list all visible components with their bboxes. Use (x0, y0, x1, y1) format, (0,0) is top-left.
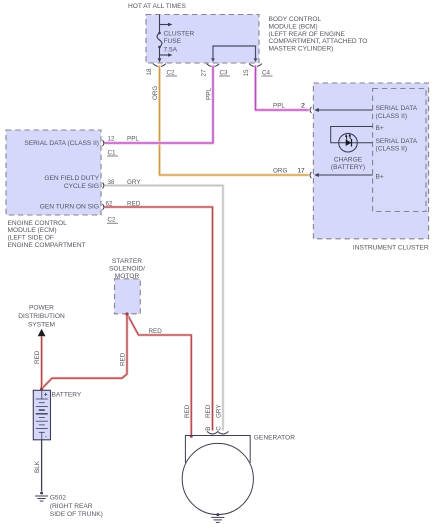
svg-text:12: 12 (108, 135, 116, 142)
svg-text:(CLASS II): (CLASS II) (376, 113, 408, 120)
svg-text:SIDE OF TRUNK): SIDE OF TRUNK) (50, 511, 103, 518)
svg-text:18: 18 (146, 68, 153, 76)
svg-text:(RIGHT REAR: (RIGHT REAR (50, 503, 93, 510)
svg-text:ENGINE CONTROL: ENGINE CONTROL (8, 220, 68, 227)
generator body (182, 443, 253, 514)
svg-text:-: - (45, 435, 47, 441)
svg-text:ORG: ORG (273, 167, 287, 174)
wire RED battery to power distribution (40, 337, 43, 391)
svg-text:SERIAL DATA: SERIAL DATA (376, 105, 418, 112)
wire B+ to pin 17 (315, 174, 373, 176)
svg-text:(LEFT REAR OF ENGINE: (LEFT REAR OF ENGINE (269, 31, 346, 38)
svg-text:(LEFT SIDE OF: (LEFT SIDE OF (8, 235, 54, 242)
connector at generator pin C (218, 431, 229, 434)
wire GRY ECM pin 38 to generator C (105, 186, 224, 431)
svg-text:27: 27 (201, 69, 208, 77)
wire charge lamp to serial data (339, 142, 373, 144)
svg-text:STARTER: STARTER (112, 258, 142, 265)
junction dot at starter (125, 312, 128, 315)
svg-text:G502: G502 (50, 495, 66, 502)
indicator CHARGE (BATTERY) (339, 133, 358, 152)
svg-text:GENERATOR: GENERATOR (254, 434, 295, 441)
svg-text:HOT AT ALL TIMES: HOT AT ALL TIMES (128, 3, 187, 10)
svg-text:CYCLE SIG: CYCLE SIG (64, 183, 99, 190)
svg-text:C2: C2 (108, 217, 117, 224)
connector at ECM pin 38 (103, 183, 104, 189)
svg-text:INSTRUMENT CLUSTER: INSTRUMENT CLUSTER (353, 245, 429, 252)
svg-text:CHARGE: CHARGE (334, 156, 363, 163)
svg-text:C3: C3 (220, 69, 229, 76)
svg-text:RED: RED (34, 350, 41, 364)
svg-text:PPL: PPL (127, 135, 139, 142)
connector at ECM pin 12 (103, 140, 104, 146)
connector at cluster pin 2 (310, 107, 311, 113)
svg-text:+: + (44, 392, 48, 399)
svg-text:RED: RED (205, 404, 212, 418)
connector C4 (BCM) (249, 64, 262, 67)
svg-text:B+: B+ (376, 173, 384, 180)
ground G502 (35, 492, 48, 502)
svg-text:SERIAL DATA (CLASS II): SERIAL DATA (CLASS II) (24, 140, 99, 147)
svg-text:C: C (216, 426, 223, 431)
svg-text:2: 2 (301, 103, 305, 110)
ECM box (6, 130, 101, 215)
BCM fuse box (146, 15, 259, 64)
junction dot at generator feed (190, 435, 193, 438)
wire B+ loop to charge lamp (331, 127, 373, 143)
svg-text:POWER: POWER (29, 304, 54, 311)
svg-text:B+: B+ (376, 125, 384, 132)
svg-text:ENGINE COMPARTMENT: ENGINE COMPARTMENT (8, 242, 86, 249)
arrow to power distribution (38, 329, 46, 336)
svg-text:MODULE (BCM): MODULE (BCM) (269, 23, 318, 30)
svg-text:RED: RED (120, 352, 127, 366)
svg-text:PPL: PPL (205, 88, 212, 100)
svg-text:SERIAL DATA: SERIAL DATA (376, 138, 418, 145)
wire serial data to pin 2 (315, 109, 373, 111)
svg-text:GEN TURN ON SIG: GEN TURN ON SIG (40, 204, 99, 211)
wire RED ECM pin 62 to generator B (105, 207, 213, 431)
svg-text:CLUSTER: CLUSTER (164, 31, 195, 38)
starter solenoid/motor box (115, 279, 141, 314)
svg-text:SYSTEM: SYSTEM (28, 321, 55, 328)
svg-text:7.5A: 7.5A (164, 46, 178, 53)
svg-text:GEN FIELD DUTY: GEN FIELD DUTY (44, 175, 99, 182)
svg-text:ORG: ORG (152, 86, 159, 100)
svg-text:FUSE: FUSE (164, 38, 182, 45)
battery cells (36, 391, 48, 440)
svg-text:17: 17 (298, 168, 306, 175)
svg-text:15: 15 (243, 69, 250, 77)
wire RED starter to generator (127, 314, 191, 436)
battery BAT1 (33, 390, 50, 440)
connector C3 (BCM) (207, 64, 220, 67)
connector C2 (BCM) (153, 64, 166, 67)
wire PPL C4 to cluster pin 2 (256, 66, 309, 111)
svg-text:MODULE (ECM): MODULE (ECM) (8, 227, 57, 234)
svg-text:COMPARTMENT, ATTACHED TO: COMPARTMENT, ATTACHED TO (269, 38, 368, 45)
fuse F1 CLUSTER FUSE 7.5A (157, 15, 168, 60)
svg-text:BLK: BLK (34, 460, 41, 473)
svg-text:C1: C1 (108, 149, 117, 156)
svg-text:C2: C2 (167, 69, 176, 76)
svg-text:B: B (205, 427, 212, 431)
svg-text:MASTER CYLINDER): MASTER CYLINDER) (269, 46, 334, 53)
svg-text:C4: C4 (262, 69, 271, 76)
wire ORG fuse to cluster pin 17 (160, 66, 309, 176)
connector at ECM pin 62 (103, 204, 104, 210)
svg-text:RED: RED (184, 404, 191, 418)
svg-text:RED: RED (149, 328, 163, 335)
svg-text:GRY: GRY (216, 404, 223, 418)
svg-text:SOLENOID/: SOLENOID/ (109, 266, 145, 273)
svg-text:BATTERY: BATTERY (52, 392, 82, 399)
wire RED starter to battery (42, 314, 127, 389)
ground at generator (211, 513, 224, 522)
junction dot at battery + (40, 387, 43, 390)
svg-text:(BATTERY): (BATTERY) (331, 164, 365, 171)
svg-text:(CLASS II): (CLASS II) (376, 146, 408, 153)
generator box (185, 436, 250, 463)
svg-text:BODY CONTROL: BODY CONTROL (269, 16, 322, 23)
wire jumper C3-C4 inside BCM (213, 46, 256, 59)
svg-text:DISTRIBUTION: DISTRIBUTION (18, 313, 65, 320)
connector at cluster pin 17 (310, 172, 311, 178)
instrument cluster inner box (373, 89, 426, 212)
instrument cluster box (313, 83, 428, 239)
wire PPL C3 to ECM pin 12 (105, 66, 214, 144)
connector at generator pin B (207, 431, 218, 434)
wire BLK battery to ground (41, 440, 43, 491)
svg-text:PPL: PPL (273, 102, 285, 109)
